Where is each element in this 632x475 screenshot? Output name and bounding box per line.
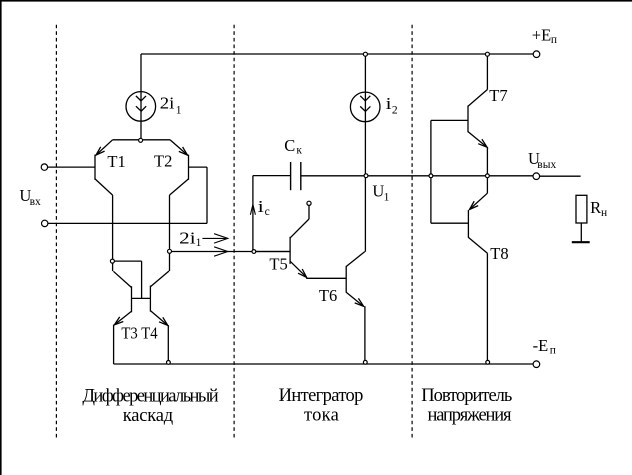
svg-text:п: п (550, 345, 556, 357)
node T4 emitter on rail (167, 361, 171, 365)
terminal -Ep (533, 361, 540, 368)
svg-text:вх: вх (30, 196, 41, 208)
svg-text:T5: T5 (269, 255, 287, 274)
svg-text:+E: +E (532, 25, 551, 44)
wire T7 T8 base vertical (430, 120, 432, 223)
transistor T6 (346, 252, 365, 364)
svg-text:R: R (590, 198, 601, 217)
svg-text:U: U (372, 182, 384, 201)
arrow ic current up (250, 205, 255, 215)
node on +Ep rail above T7 (485, 52, 489, 56)
transistor T8 (431, 176, 488, 364)
svg-text:2i: 2i (179, 228, 196, 247)
stage boundary dashed line middle (233, 25, 235, 439)
terminal input lower (42, 220, 48, 226)
node ic junction (252, 250, 256, 254)
svg-text:i: i (258, 197, 265, 216)
terminal +Ep (533, 51, 540, 58)
wire Rn to ground (580, 223, 582, 242)
svg-text:1: 1 (384, 191, 390, 203)
node T8 collector on rail (486, 360, 490, 364)
wire +Ep rail (141, 53, 533, 55)
stage boundary dashed line left (55, 25, 57, 439)
svg-text:T7: T7 (489, 86, 507, 105)
svg-text:Повторитель: Повторитель (421, 386, 512, 406)
transistor T3 (113, 271, 131, 364)
svg-text:T2: T2 (154, 151, 172, 170)
svg-text:1: 1 (196, 237, 202, 249)
svg-text:к: к (296, 145, 302, 157)
svg-text:2: 2 (392, 104, 398, 116)
node common emitters of T1 T2 (139, 138, 143, 142)
svg-text:напряжения: напряжения (428, 406, 512, 426)
current source 2i1 (126, 92, 156, 122)
svg-text:T8: T8 (490, 244, 508, 263)
wire capacitor right to U1 and output stage (301, 175, 533, 177)
annotation arrow 2i1 upper (202, 237, 226, 239)
wire output stub right of terminal (540, 175, 581, 177)
node T2 collector junction (168, 249, 172, 253)
node U1 (364, 174, 368, 178)
wire capacitor left (253, 175, 291, 177)
svg-text:C: C (284, 136, 295, 155)
svg-text:-E: -E (533, 336, 549, 355)
annotation arrow on wire (214, 247, 228, 256)
svg-text:вых: вых (537, 159, 556, 171)
transistor T1 (48, 140, 113, 271)
wire ic vertical (252, 176, 254, 252)
terminal output Uvyx (533, 173, 540, 180)
capacitor Ck (291, 162, 301, 190)
transistor T7 (431, 54, 488, 176)
resistor Rn (576, 195, 587, 223)
stage boundary dashed line right (411, 25, 413, 439)
transistor T4 (132, 251, 170, 362)
svg-text:тока: тока (304, 405, 339, 425)
wire lower input (48, 222, 207, 224)
ground (572, 241, 590, 243)
svg-text:каскад: каскад (123, 406, 173, 426)
wire 2i1 to T5 base (171, 251, 290, 253)
node output junction (486, 174, 490, 178)
terminal T5 collector (307, 201, 311, 205)
wire from +Ep rail to current source 2i1 (140, 54, 142, 140)
svg-text:1: 1 (176, 104, 182, 116)
terminal input upper (41, 164, 47, 170)
node U1 wire to base vertical (429, 174, 433, 178)
node on +Ep rail above i2 source (363, 52, 367, 56)
transistor T2 (170, 140, 208, 252)
svg-text:п: п (551, 34, 557, 46)
wire mirror bias horizontal (114, 260, 141, 262)
wire i2 branch vertical (364, 54, 366, 252)
svg-text:Интегратор: Интегратор (279, 386, 364, 406)
node T6 emitter on rail (363, 360, 367, 364)
wire common emitter roof (113, 139, 170, 141)
svg-text:Дифференциальный: Дифференциальный (82, 386, 218, 406)
svg-text:T1: T1 (107, 152, 125, 171)
wire mirror bias vertical (141, 261, 143, 298)
wire -Ep rail (114, 363, 534, 365)
svg-text:T6: T6 (319, 286, 337, 305)
node T1 collector junction (110, 259, 114, 263)
svg-text:T3 T4: T3 T4 (121, 323, 157, 342)
transistor T5 (256, 205, 346, 278)
svg-text:c: c (265, 206, 270, 218)
svg-text:н: н (601, 207, 607, 219)
current source i2 (350, 92, 380, 122)
svg-text:2i: 2i (160, 94, 175, 113)
